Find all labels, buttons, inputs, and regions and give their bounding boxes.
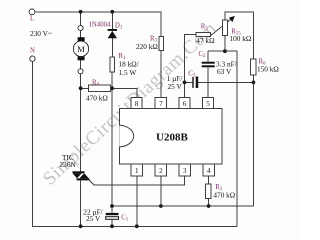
svg-text:U208B: U208B [156, 132, 188, 144]
svg-text:5: 5 [206, 100, 210, 108]
svg-text:236N: 236N [60, 160, 77, 169]
svg-text:2: 2 [159, 167, 163, 175]
svg-text:6: 6 [183, 100, 187, 108]
svg-text:63 V: 63 V [217, 67, 232, 76]
svg-text:47 kΩ: 47 kΩ [196, 36, 215, 45]
svg-text:3: 3 [183, 167, 187, 175]
svg-text:150 kΩ: 150 kΩ [257, 65, 279, 74]
svg-text:230 V~: 230 V~ [30, 29, 52, 38]
svg-text:25 V: 25 V [168, 82, 183, 91]
svg-text:N: N [30, 48, 35, 55]
svg-text:25 V: 25 V [86, 214, 101, 223]
svg-text:4: 4 [207, 167, 211, 175]
svg-text:1: 1 [135, 167, 139, 175]
svg-text:M: M [77, 44, 85, 54]
svg-text:1.5 W: 1.5 W [119, 68, 137, 77]
svg-text:8: 8 [135, 100, 139, 108]
svg-text:L: L [30, 16, 34, 23]
svg-text:1N4004: 1N4004 [89, 22, 112, 29]
svg-text:7: 7 [159, 100, 163, 108]
svg-text:470 kΩ: 470 kΩ [213, 191, 235, 200]
svg-text:470 kΩ: 470 kΩ [86, 94, 108, 103]
